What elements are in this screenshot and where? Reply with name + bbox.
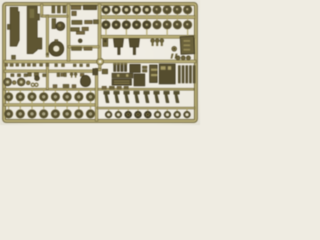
runner: horizontal middle right half	[103, 60, 196, 63]
small rect part right of sticks	[130, 64, 141, 72]
turret ring part	[49, 40, 64, 57]
runner: horizontal stub near donut	[68, 46, 99, 48]
hull trapezoid part 2	[129, 39, 140, 55]
runner: horizontal middle left half	[4, 60, 97, 63]
three small wheels on mid runner	[176, 56, 191, 60]
bottom right wheel row	[105, 109, 190, 118]
runner: horizontal bottom-left between wheel rows	[4, 104, 96, 107]
runner: horizontal mid-right between top wheel rows	[99, 16, 195, 19]
small ring part	[172, 46, 177, 51]
small square part	[102, 69, 107, 74]
hull plate A1 (tall left)	[7, 7, 19, 59]
small parts row below second runner	[11, 73, 84, 78]
vertical sticks cluster (tools)	[113, 63, 127, 71]
runner: thin lower horizontal	[4, 88, 194, 90]
small bars cluster above mid runner	[72, 47, 93, 50]
hull trapezoid part 1	[114, 39, 124, 55]
runner: vertical divider x98 top	[98, 4, 101, 59]
idler disc part	[56, 22, 65, 31]
engine deck panel	[180, 36, 195, 54]
runner junction ring	[97, 58, 104, 65]
runner: vertical short x41.5 top	[41, 4, 43, 17]
torsion bar sticks	[178, 66, 195, 83]
small disc part mid	[78, 39, 82, 43]
runner: vertical divider bottom	[95, 65, 101, 121]
flat hull slab upper	[112, 73, 133, 78]
small knob right of dome 2	[26, 81, 30, 85]
two slanted rods	[171, 54, 178, 59]
runner: horizontal below top-right wheels	[99, 35, 195, 38]
tiny parts row below mid runner	[5, 64, 90, 67]
runner: vertical connector x47 lower	[46, 63, 48, 90]
side bracket part with hole	[103, 38, 108, 46]
flat hull part (right)	[134, 74, 145, 86]
two small squares far right of sticks	[142, 66, 147, 72]
short vertical bar part	[52, 19, 56, 29]
fuel tank teardrop part	[81, 75, 91, 86]
small bits lower-mid-left	[53, 84, 76, 87]
hatch dome 1	[4, 78, 12, 86]
road wheel row 1 (top right)	[101, 5, 192, 16]
runner: thin horizontal y16 middle	[48, 15, 68, 17]
road wheel row 2 (top right)	[101, 18, 192, 35]
sprue outer frame	[4, 4, 196, 121]
runner: jog stub to x47	[42, 15, 49, 57]
small knob right of dome 1	[12, 81, 16, 85]
suspension arm row	[104, 91, 180, 103]
flat hull slab lower	[112, 79, 132, 85]
engine bracket part	[150, 65, 158, 83]
small parts row below flat parts	[102, 86, 128, 89]
hatch dome 2	[17, 78, 25, 86]
three hanging posts top-middle	[52, 6, 66, 13]
road wheel row B (bottom left)	[4, 106, 94, 118]
engine block part	[159, 64, 175, 84]
dark square at divider	[93, 69, 98, 75]
two tiny rings	[31, 83, 38, 86]
fender bar parts top-middle	[71, 5, 96, 9]
gate knob on vertical runner	[46, 53, 49, 56]
runner: vertical top-left center	[67, 4, 70, 61]
road wheel row A (bottom left)	[4, 90, 94, 104]
three small posts	[151, 39, 164, 46]
runner: horizontal left mid	[4, 70, 93, 73]
runner: thin bottom-right above wheels	[97, 107, 195, 109]
hull plate A2 (second tall, stepped)	[27, 6, 42, 53]
dark knob part	[35, 76, 40, 81]
small brackets right of runner	[71, 11, 99, 34]
